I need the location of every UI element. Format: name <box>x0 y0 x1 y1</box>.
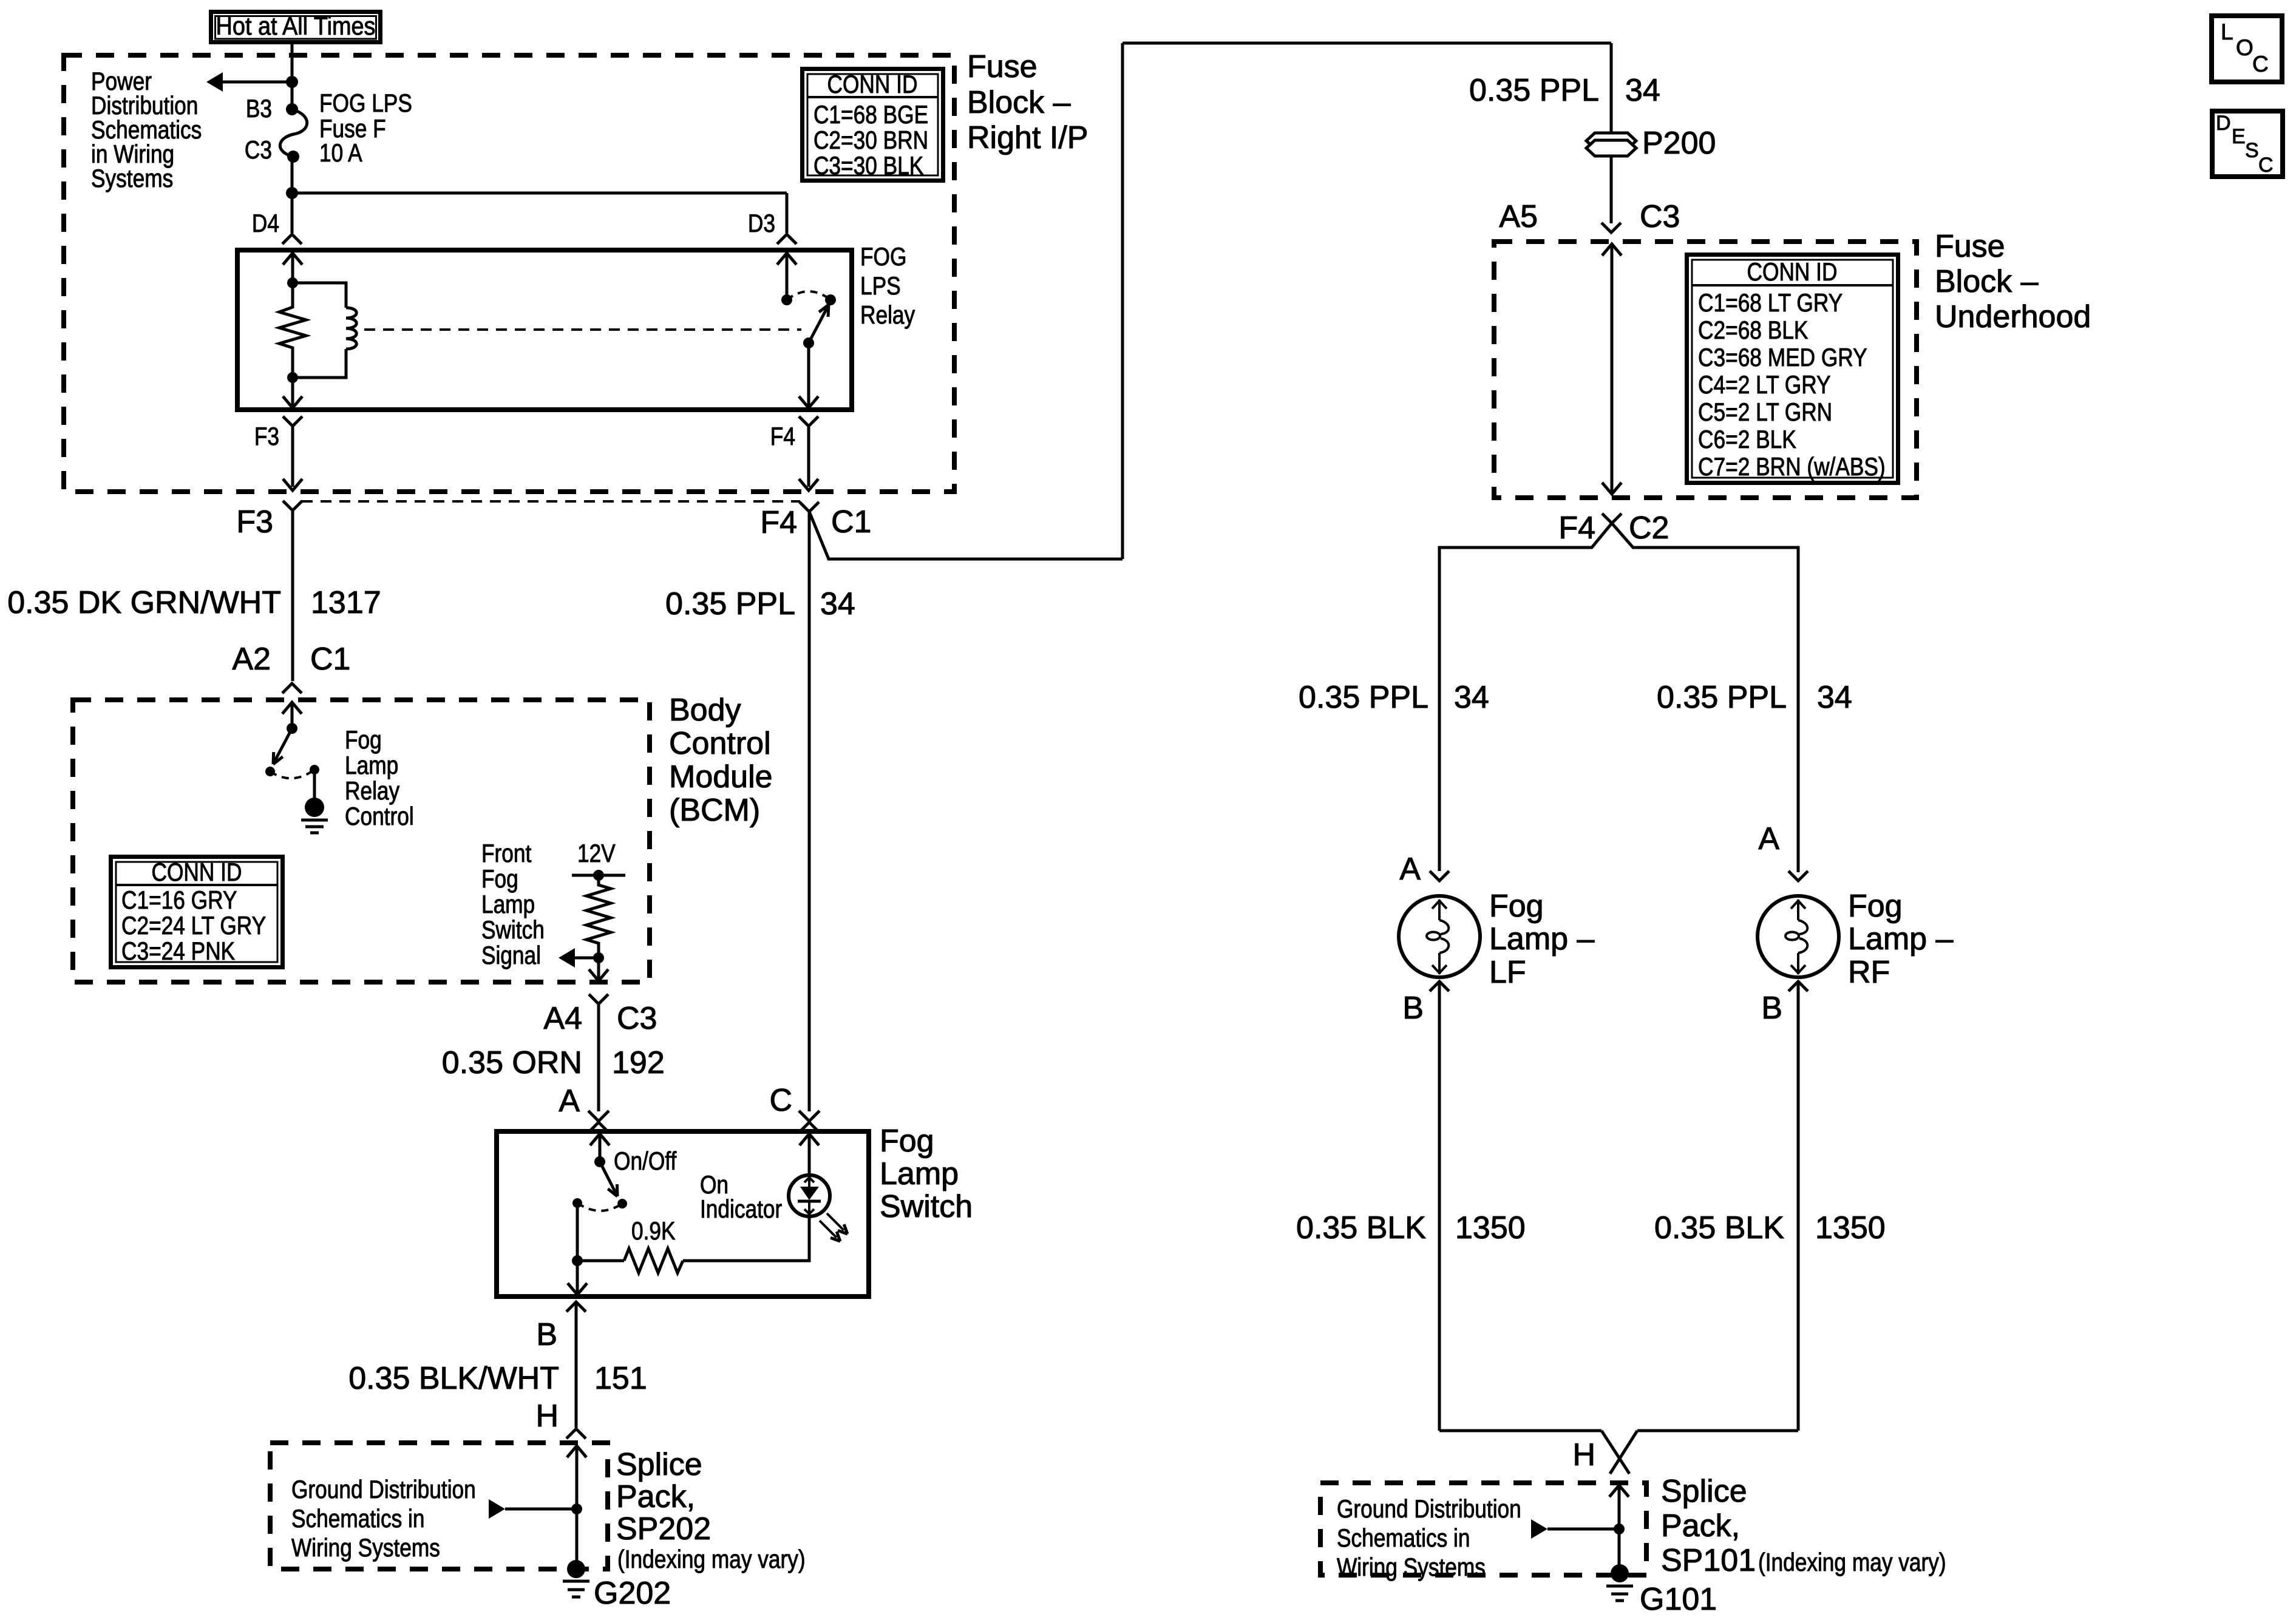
svg-text:Lamp: Lamp <box>481 890 535 919</box>
wire B junction to box edge <box>576 1261 579 1293</box>
connector chevron A (Fog Lamp - RF) <box>1788 871 1808 881</box>
svg-text:F3: F3 <box>236 504 273 540</box>
switch contact right <box>617 1199 627 1209</box>
svg-text:C5=2 LT GRN: C5=2 LT GRN <box>1698 398 1832 427</box>
svg-text:Splice: Splice <box>616 1447 702 1482</box>
relay fixed contact (D3) <box>781 294 792 305</box>
svg-text:A: A <box>1758 821 1779 856</box>
svg-text:Indicator: Indicator <box>700 1195 782 1224</box>
svg-text:LF: LF <box>1489 955 1526 990</box>
switch contact left (to B) <box>572 1198 582 1208</box>
relay coil windings <box>346 308 356 349</box>
BCM dashed outline <box>73 700 650 982</box>
svg-text:D4: D4 <box>252 209 279 238</box>
connector X at H (SP101) <box>1601 1431 1629 1474</box>
connector chevron F4/C2 <box>1602 514 1622 523</box>
relay coil input arrow D4 <box>283 253 302 265</box>
connector X at switch A <box>588 1111 609 1121</box>
top run wire to P200 <box>1123 42 1611 45</box>
wire: Hot at All Times down to fuse B3 <box>291 44 294 109</box>
svg-text:LPS: LPS <box>860 272 901 300</box>
BCM driver switch pivot <box>287 723 297 734</box>
svg-text:C1=68 BGE: C1=68 BGE <box>813 101 928 129</box>
wire common to F4 pin <box>807 343 810 407</box>
svg-text:A: A <box>1399 852 1421 887</box>
wire split to fog lamps <box>1439 523 1612 871</box>
connector chevron D3 <box>777 234 796 244</box>
svg-text:C2: C2 <box>1629 510 1669 546</box>
svg-text:Control: Control <box>345 802 414 831</box>
svg-text:Fog: Fog <box>1489 889 1544 924</box>
svg-text:Fog: Fog <box>481 865 518 893</box>
relay F4 exit arrow <box>799 396 818 408</box>
svg-text:Lamp: Lamp <box>345 751 398 780</box>
svg-text:1317: 1317 <box>311 585 381 620</box>
svg-text:Wiring Systems: Wiring Systems <box>1337 1553 1486 1582</box>
connector chevron A (Fog Lamp - LF) <box>1430 871 1449 881</box>
relay pin F4 chevron <box>799 416 818 426</box>
svg-text:C3: C3 <box>245 136 272 164</box>
svg-text:Fog: Fog <box>880 1124 934 1159</box>
svg-text:C: C <box>769 1083 792 1118</box>
splice node SP202 <box>571 1503 582 1514</box>
wire relay left leg <box>291 253 294 308</box>
relay switch input arrow D3 <box>777 253 796 265</box>
svg-text:192: 192 <box>612 1045 665 1080</box>
svg-text:P200: P200 <box>1642 126 1716 161</box>
underhood entry arrow A5 <box>1602 244 1622 256</box>
dashed travel arc switch <box>577 1203 622 1211</box>
svg-text:Schematics in: Schematics in <box>1337 1524 1470 1553</box>
SP101 entry arrow <box>1609 1485 1629 1497</box>
arrow Front Fog Lamp Switch Signal <box>559 948 575 968</box>
wire fuse to D4 junction <box>291 157 294 233</box>
wire B to splice pack <box>575 1302 578 1428</box>
DESC reference box <box>2212 111 2283 177</box>
svg-text:F4: F4 <box>760 505 797 540</box>
svg-text:Switch: Switch <box>880 1189 973 1224</box>
svg-text:C1=68 LT GRY: C1=68 LT GRY <box>1698 289 1843 317</box>
svg-text:0.35 DK GRN/WHT: 0.35 DK GRN/WHT <box>7 585 281 620</box>
ground terminal circle (BCM) <box>305 798 324 817</box>
fuse block Right I/P dashed outline <box>64 55 954 492</box>
connector chevron B <box>566 1302 586 1312</box>
svg-text:C2=24 LT GRY: C2=24 LT GRY <box>121 912 266 940</box>
node coil top <box>287 277 298 288</box>
svg-text:F3: F3 <box>254 422 279 451</box>
svg-text:E: E <box>2232 125 2246 148</box>
CONN ID table underhood <box>1687 255 1898 483</box>
svg-text:0.9K: 0.9K <box>631 1217 676 1246</box>
wire C to indicator <box>808 1134 811 1176</box>
connector F3 chevron <box>283 501 302 510</box>
svg-text:B3: B3 <box>246 95 272 123</box>
svg-text:B: B <box>1402 991 1424 1026</box>
svg-text:(Indexing may vary): (Indexing may vary) <box>1758 1548 1946 1577</box>
svg-text:34: 34 <box>1625 73 1660 108</box>
svg-text:0.35 BLK: 0.35 BLK <box>1296 1210 1426 1246</box>
splice pack SP202 dashed outline <box>270 1443 608 1569</box>
svg-text:G202: G202 <box>594 1576 671 1611</box>
power feed box: Hot at All Times <box>211 12 381 42</box>
wire B to ground rail (Fog Lamp - LF) <box>1438 981 1441 1431</box>
pass-through grommet P200 <box>1586 133 1636 149</box>
svg-text:F4: F4 <box>770 422 795 451</box>
svg-text:On/Off: On/Off <box>614 1147 676 1176</box>
svg-text:L: L <box>2221 19 2233 44</box>
On Indicator LED circle <box>789 1175 830 1216</box>
svg-text:34: 34 <box>820 586 855 622</box>
wire contact to ground <box>313 770 316 799</box>
arrow to Ground Distribution (SP101) <box>1531 1519 1547 1539</box>
connector chevron B (Fog Lamp - RF) <box>1788 981 1808 991</box>
svg-text:Fuse: Fuse <box>1935 229 2005 264</box>
switch exit arrow B <box>568 1283 587 1295</box>
svg-text:0.35 PPL: 0.35 PPL <box>1657 680 1787 715</box>
wire to Power Distribution arrow <box>220 81 292 84</box>
BCM driver switch arm <box>275 728 292 761</box>
svg-text:A: A <box>559 1083 580 1119</box>
exit arrow F4 <box>799 479 818 490</box>
svg-text:H: H <box>535 1398 559 1434</box>
svg-text:Signal: Signal <box>481 941 541 970</box>
junction node B <box>572 1255 583 1266</box>
svg-text:Fog: Fog <box>345 726 382 754</box>
svg-text:O: O <box>2236 35 2254 60</box>
svg-text:Schematics in: Schematics in <box>291 1505 425 1533</box>
ground terminal G101 <box>1611 1564 1629 1582</box>
wire through underhood fuse block <box>1611 244 1614 493</box>
connector C1 dashed line <box>302 500 800 503</box>
filament (Fog Lamp - RF) <box>1797 900 1799 920</box>
connector X at switch C <box>799 1111 820 1121</box>
dashed relay actuation line <box>364 328 801 331</box>
arrow to Ground Distribution (SP202) <box>489 1499 505 1519</box>
svg-text:G101: G101 <box>1640 1582 1717 1617</box>
wire H to ground G202 <box>576 1446 579 1564</box>
svg-text:A2: A2 <box>232 642 271 677</box>
coil branch wires <box>293 283 346 308</box>
svg-text:B: B <box>1761 991 1782 1026</box>
svg-text:Pack,: Pack, <box>616 1479 695 1514</box>
on/off switch arm <box>600 1162 616 1193</box>
svg-text:Switch: Switch <box>481 916 545 944</box>
svg-text:Underhood: Underhood <box>1935 299 2091 334</box>
wire contact to B junction <box>576 1203 579 1261</box>
connector chevron B (Fog Lamp - LF) <box>1430 981 1449 991</box>
splice pack SP101 dashed outline <box>1320 1483 1646 1575</box>
svg-text:Relay: Relay <box>345 777 400 805</box>
switch entry arrow C <box>800 1134 819 1145</box>
12V supply bar <box>572 874 625 877</box>
wire to BCM driver switch <box>291 702 294 728</box>
BCM entry arrow A2 <box>282 702 302 714</box>
svg-text:FOG LPS: FOG LPS <box>319 89 412 118</box>
svg-text:C3: C3 <box>617 1001 657 1036</box>
svg-text:Ground Distribution: Ground Distribution <box>1337 1495 1521 1524</box>
fog lamp switch box <box>497 1131 869 1297</box>
BCM switch contact right (to ground) <box>310 765 319 775</box>
BCM switch contact left <box>265 767 275 776</box>
svg-text:RF: RF <box>1848 955 1890 990</box>
splice node SP101 <box>1614 1524 1625 1534</box>
LED light rays <box>827 1213 844 1230</box>
svg-text:C6=2 BLK: C6=2 BLK <box>1698 425 1796 454</box>
wire arrow to splice node (SP101) <box>1547 1528 1619 1531</box>
svg-text:Lamp –: Lamp – <box>1848 921 1954 957</box>
svg-text:Lamp –: Lamp – <box>1489 921 1595 957</box>
svg-text:Right I/P: Right I/P <box>967 120 1088 155</box>
exit arrow F3 <box>283 479 302 490</box>
svg-text:C3=24 PNK: C3=24 PNK <box>121 937 235 966</box>
relay box FOG LPS Relay <box>237 250 852 410</box>
ground rail joining fog lamps <box>1439 1429 1601 1432</box>
on/off switch pivot <box>594 1156 605 1167</box>
svg-text:C1=16 GRY: C1=16 GRY <box>121 886 237 915</box>
ground symbol G101 <box>1606 1585 1633 1588</box>
relay movable arm <box>809 308 827 343</box>
wire F4/C1 diagonal to riser <box>809 512 1123 559</box>
fog lamp bulb Fog Lamp - LF <box>1399 896 1480 977</box>
riser wire to top run <box>1121 43 1124 559</box>
dashed contact travel arc <box>787 291 830 300</box>
svg-text:CONN ID: CONN ID <box>827 70 918 99</box>
relay common node <box>803 337 814 348</box>
connector chevron A4/C3 <box>589 994 608 1004</box>
wire top run down to P200 <box>1610 43 1613 134</box>
svg-text:F4: F4 <box>1558 510 1595 546</box>
node coil bottom <box>287 372 298 383</box>
wire F4/C1 down to fog lamp switch C <box>808 512 811 1111</box>
wire junction to resistor <box>577 1259 624 1263</box>
svg-text:C: C <box>2252 52 2269 76</box>
SP202 entry arrow <box>567 1446 586 1457</box>
svg-text:CONN ID: CONN ID <box>152 858 242 887</box>
connector F4/C1 chevron <box>800 502 819 512</box>
svg-text:C: C <box>2258 154 2274 177</box>
ground symbol G202 <box>563 1580 589 1583</box>
svg-text:C3=30 BLK: C3=30 BLK <box>813 152 923 180</box>
svg-text:0.35 PPL: 0.35 PPL <box>1299 680 1428 715</box>
CONN ID table fuse block Right I/P <box>803 69 943 181</box>
svg-text:C1: C1 <box>310 642 350 677</box>
svg-text:Control: Control <box>669 726 771 761</box>
switch entry arrow A <box>590 1134 610 1145</box>
svg-text:A4: A4 <box>543 1001 582 1036</box>
wire junction to D3 drop <box>292 192 787 195</box>
svg-text:D3: D3 <box>748 209 775 238</box>
resistor in relay (parallel with coil) <box>279 307 306 348</box>
connector chevron A2/C1 <box>282 683 302 693</box>
relay contact (output side) <box>825 294 836 305</box>
svg-text:(BCM): (BCM) <box>669 793 760 828</box>
wire coil bottom to F3 pin <box>291 378 294 407</box>
svg-text:B: B <box>536 1317 557 1352</box>
svg-text:0.35 BLK: 0.35 BLK <box>1654 1210 1784 1246</box>
svg-text:Splice: Splice <box>1661 1474 1747 1509</box>
svg-text:SP202: SP202 <box>616 1511 711 1547</box>
svg-text:151: 151 <box>594 1361 647 1396</box>
wire A to on/off switch <box>599 1134 602 1162</box>
fog lamp bulb Fog Lamp - RF <box>1758 896 1839 977</box>
svg-text:Lamp: Lamp <box>880 1156 959 1192</box>
svg-text:D: D <box>2216 112 2231 135</box>
relay pin F3 chevron <box>283 416 302 426</box>
wire F3 to fuse block edge <box>291 426 294 487</box>
dashed travel arc BCM switch <box>270 770 314 778</box>
svg-text:C3: C3 <box>1640 199 1680 234</box>
svg-text:34: 34 <box>1454 680 1489 715</box>
wire D3 to fixed contact <box>786 253 789 300</box>
junction node to D3 branch <box>286 187 298 199</box>
wire to signal arrow <box>575 957 599 960</box>
node switch signal <box>593 952 604 963</box>
svg-text:1350: 1350 <box>1815 1210 1886 1246</box>
wire F3 to BCM A2 <box>291 510 294 681</box>
svg-text:C2=30 BRN: C2=30 BRN <box>813 126 928 155</box>
wire A4 to fog lamp switch A <box>597 1004 600 1111</box>
svg-text:Front: Front <box>481 839 532 868</box>
svg-text:0.35 PPL: 0.35 PPL <box>665 586 795 622</box>
fuse F FOG LPS 10A symbol <box>286 103 298 115</box>
svg-text:FOG: FOG <box>860 243 906 271</box>
ground symbol (BCM) <box>301 819 328 822</box>
svg-text:Relay: Relay <box>860 301 915 330</box>
svg-text:0.35 BLK/WHT: 0.35 BLK/WHT <box>348 1361 559 1396</box>
svg-text:A5: A5 <box>1499 199 1538 234</box>
svg-text:Block –: Block – <box>967 85 1071 120</box>
svg-text:1350: 1350 <box>1455 1210 1526 1246</box>
pull-up resistor (switch signal) <box>586 875 611 958</box>
svg-text:Wiring Systems: Wiring Systems <box>291 1534 440 1562</box>
svg-text:Module: Module <box>669 759 773 795</box>
LOC reference box <box>2212 16 2282 82</box>
BCM exit arrow A4 <box>589 969 608 981</box>
svg-text:0.35 PPL: 0.35 PPL <box>1469 73 1599 108</box>
svg-text:0.35 ORN: 0.35 ORN <box>442 1045 582 1080</box>
svg-text:Hot at All Times: Hot at All Times <box>216 12 376 41</box>
svg-text:(Indexing may vary): (Indexing may vary) <box>617 1545 806 1574</box>
connector chevron H <box>566 1429 586 1439</box>
svg-text:Fuse: Fuse <box>967 49 1038 84</box>
wire signal to A4 exit <box>597 958 600 980</box>
wire H to ground G101 <box>1618 1485 1621 1566</box>
arrow to Power Distribution Schematics <box>206 72 223 92</box>
wire arrow to splice node <box>505 1508 577 1511</box>
CONN ID table BCM <box>111 857 283 968</box>
node on feed wire <box>286 76 298 88</box>
svg-text:12V: 12V <box>577 839 616 868</box>
svg-text:34: 34 <box>1817 680 1852 715</box>
relay F3 exit arrow <box>283 396 302 408</box>
resistor 0.9K <box>624 1249 683 1273</box>
svg-text:C1: C1 <box>831 504 871 540</box>
ground terminal G202 <box>567 1560 585 1578</box>
svg-text:Block –: Block – <box>1935 264 2039 299</box>
svg-text:Ground Distribution: Ground Distribution <box>291 1476 476 1504</box>
svg-text:Systems: Systems <box>91 164 173 193</box>
svg-text:10 A: 10 A <box>319 139 362 168</box>
svg-text:C7=2 BRN (w/ABS): C7=2 BRN (w/ABS) <box>1698 453 1886 481</box>
node 12V <box>593 870 604 881</box>
svg-text:Pack,: Pack, <box>1661 1508 1740 1544</box>
connector chevron A5/C3 <box>1601 223 1621 232</box>
svg-text:C2=68 BLK: C2=68 BLK <box>1698 316 1808 345</box>
svg-text:H: H <box>1572 1437 1595 1473</box>
svg-text:SP101: SP101 <box>1661 1543 1756 1578</box>
svg-text:CONN ID: CONN ID <box>1747 258 1838 286</box>
svg-text:Fog: Fog <box>1848 889 1903 924</box>
filament (Fog Lamp - LF) <box>1438 900 1441 920</box>
LED diode symbol <box>808 1176 810 1187</box>
fuse block underhood dashed outline <box>1494 242 1917 498</box>
connector chevron D4 <box>282 234 302 244</box>
wire P200 to A5 <box>1610 156 1613 223</box>
svg-text:C4=2 LT GRY: C4=2 LT GRY <box>1698 371 1831 399</box>
wire F4 to fuse block edge <box>807 426 810 487</box>
svg-text:C3=68 MED GRY: C3=68 MED GRY <box>1698 344 1867 372</box>
svg-text:Body: Body <box>669 693 741 728</box>
wire resistor to LED <box>683 1216 809 1261</box>
svg-text:S: S <box>2245 139 2259 162</box>
wire B to ground rail (Fog Lamp - RF) <box>1797 981 1800 1431</box>
wire down to relay D3 pin <box>786 193 789 233</box>
underhood exit arrow F4 <box>1602 483 1622 494</box>
